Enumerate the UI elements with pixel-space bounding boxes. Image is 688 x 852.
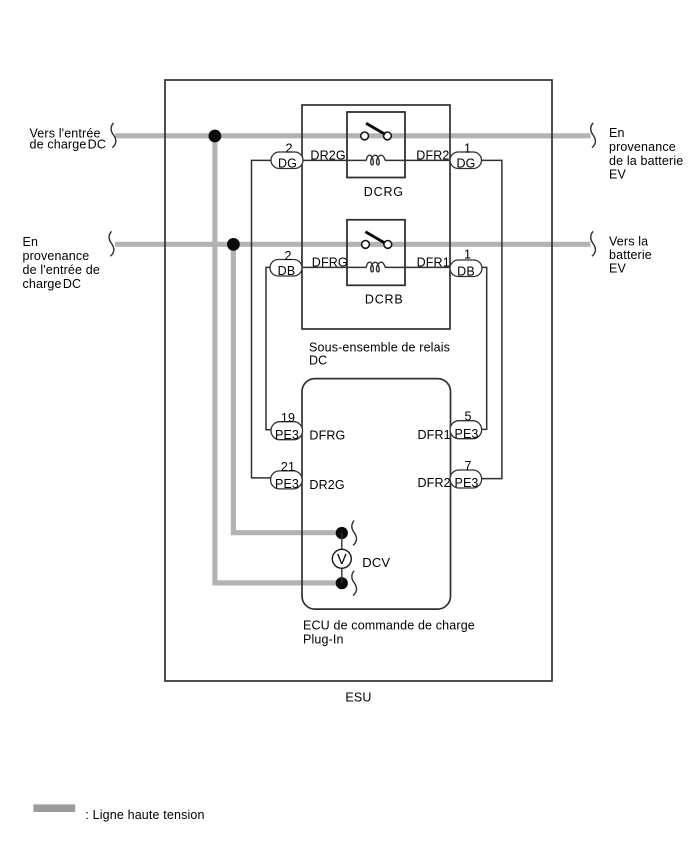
label DCV (362, 555, 390, 570)
svg-text:DFR2: DFR2 (416, 149, 449, 163)
label En provenance de l'entrée de charge DC (23, 235, 100, 291)
svg-text:DB: DB (457, 264, 475, 278)
connector 2 DG (271, 141, 303, 170)
svg-text:DFR1: DFR1 (418, 428, 451, 442)
svg-text:charge DC: charge DC (23, 277, 82, 291)
label DFR1 ECU pin 5 (418, 428, 451, 442)
svg-text:ESU: ESU (345, 690, 371, 704)
relay sub-assembly box (Sous-ensemble de relais DC) (302, 105, 450, 329)
connector 2 DB (270, 249, 302, 278)
svg-text:2: 2 (284, 249, 291, 263)
svg-text:DR2G: DR2G (310, 149, 345, 163)
legend high-voltage line sample bar (33, 804, 75, 812)
label ESU (345, 690, 371, 704)
break squiggle left of line 2 (109, 231, 114, 256)
wire DCV sense link (341, 533, 343, 583)
relay DCRB switch contact circles (362, 241, 392, 249)
wire DFR1 net: connector 1 DB to ECU pin 5 PE3 (481, 267, 487, 429)
svg-text:1: 1 (464, 248, 471, 262)
svg-text:DFRG: DFRG (309, 429, 345, 443)
label En provenance de la batterie EV (609, 126, 683, 181)
svg-text:DB: DB (278, 264, 296, 278)
connector 1 DB (450, 248, 482, 279)
label DFR1 at relay DCRB coil (417, 256, 450, 270)
connector pin 21 PE3 (271, 460, 303, 491)
relay DCRB coil (366, 262, 386, 272)
label Vers l'entrée de charge DC (30, 126, 107, 151)
relay DCRB box (347, 220, 405, 285)
wire high-voltage line 1 (Vers l'entrée de charge DC to batterie EV) (115, 133, 591, 138)
label DR2G ECU pin 21 (309, 478, 344, 492)
wire high-voltage vertical from node B to DCV upper terminal (233, 244, 346, 532)
label ECU de commande de charge Plug-In (303, 619, 475, 647)
label DCRG (364, 185, 404, 199)
svg-text:2: 2 (285, 141, 292, 155)
svg-text:DFRG: DFRG (312, 256, 348, 270)
voltmeter V circle DCV (332, 549, 351, 568)
DCV lower terminal dot (336, 577, 348, 589)
label DFRG ECU pin 19 (309, 429, 345, 443)
wire DR2G net: connector 2 DG to ECU pin 21 PE3 (252, 160, 273, 478)
svg-text:Plug-In: Plug-In (303, 632, 344, 646)
svg-text:En: En (23, 235, 39, 249)
svg-text:DCV: DCV (362, 555, 390, 570)
relay DCRB switch blade (365, 232, 384, 243)
connector pin 7 PE3 (450, 459, 482, 490)
connector pin 19 PE3 (271, 411, 303, 442)
wire relay DCRG coil line (303, 159, 450, 161)
label DR2G at relay DCRG coil (310, 149, 345, 163)
svg-text:En: En (609, 126, 625, 140)
svg-text:ECU de commande de charge: ECU de commande de charge (303, 619, 475, 633)
svg-text:V: V (337, 552, 347, 568)
legend label Ligne haute tension (85, 808, 204, 822)
svg-text:EV: EV (609, 262, 626, 276)
svg-text:Sous-ensemble de relais: Sous-ensemble de relais (309, 340, 450, 354)
relay DCRG coil (366, 155, 386, 165)
relay DCRG switch contact circles (361, 132, 392, 140)
break squiggle at DCV lower terminal (352, 571, 357, 596)
DCV upper terminal dot (336, 527, 348, 539)
svg-text:de la batterie: de la batterie (609, 154, 683, 168)
svg-text:19: 19 (281, 411, 295, 425)
svg-text:provenance: provenance (609, 140, 676, 154)
svg-text:PE3: PE3 (275, 428, 299, 442)
svg-text:DFR1: DFR1 (417, 256, 450, 270)
svg-text:DFR2: DFR2 (418, 476, 451, 490)
label DCRB (365, 292, 404, 306)
relay DCRG box (347, 112, 405, 178)
svg-text:1: 1 (464, 141, 471, 155)
svg-text:: Ligne haute tension: : Ligne haute tension (85, 808, 204, 822)
svg-text:7: 7 (464, 459, 471, 473)
svg-text:DR2G: DR2G (309, 478, 344, 492)
connector pin 5 PE3 (450, 410, 482, 441)
svg-text:PE3: PE3 (275, 477, 299, 491)
svg-text:provenance: provenance (23, 249, 90, 263)
svg-text:DCRG: DCRG (364, 185, 404, 199)
wire DFR2 net: connector 1 DG to ECU pin 7 PE3 (481, 160, 502, 478)
connector 1 DG (450, 141, 482, 170)
svg-text:DC: DC (309, 353, 327, 367)
svg-text:DG: DG (278, 156, 297, 170)
svg-text:PE3: PE3 (454, 427, 478, 441)
svg-text:DG: DG (456, 156, 475, 170)
wire high-voltage line 2 (En provenance de l'entrée de charge DC to Vers la batterie EV) (115, 242, 591, 247)
break squiggle right of line 2 (591, 231, 596, 256)
break squiggle left of line 1 (111, 123, 116, 148)
svg-text:batterie: batterie (609, 248, 652, 262)
wire relay DCRB coil line (303, 266, 450, 268)
label Vers la batterie EV (609, 235, 652, 276)
break squiggle at DCV upper terminal (352, 521, 357, 546)
label DFR2 ECU pin 7 (418, 476, 451, 490)
label DFRG at relay DCRB coil (312, 256, 348, 270)
break squiggle right of line 1 (591, 123, 596, 148)
label Sous-ensemble de relais DC (309, 340, 450, 367)
svg-text:Vers la: Vers la (609, 235, 648, 249)
wire DFRG net: connector 2 DB to ECU pin 19 PE3 (266, 267, 271, 429)
svg-text:EV: EV (609, 168, 626, 182)
svg-text:DCRB: DCRB (365, 292, 404, 306)
wire high-voltage vertical from node A to DCV lower terminal (215, 136, 346, 583)
svg-text:PE3: PE3 (454, 476, 478, 490)
svg-text:5: 5 (464, 410, 471, 424)
svg-text:21: 21 (281, 460, 295, 474)
svg-text:de charge DC: de charge DC (30, 138, 107, 152)
relay DCRG switch blade (366, 123, 385, 134)
node B junction dot on line 2 (227, 238, 240, 251)
node A junction dot on line 1 (209, 130, 222, 143)
label DFR2 at relay DCRG coil (416, 149, 449, 163)
ESU enclosure box (165, 80, 552, 681)
ECU box (ECU de commande de charge Plug-In) (302, 379, 451, 609)
svg-text:de l'entrée de: de l'entrée de (23, 263, 100, 277)
